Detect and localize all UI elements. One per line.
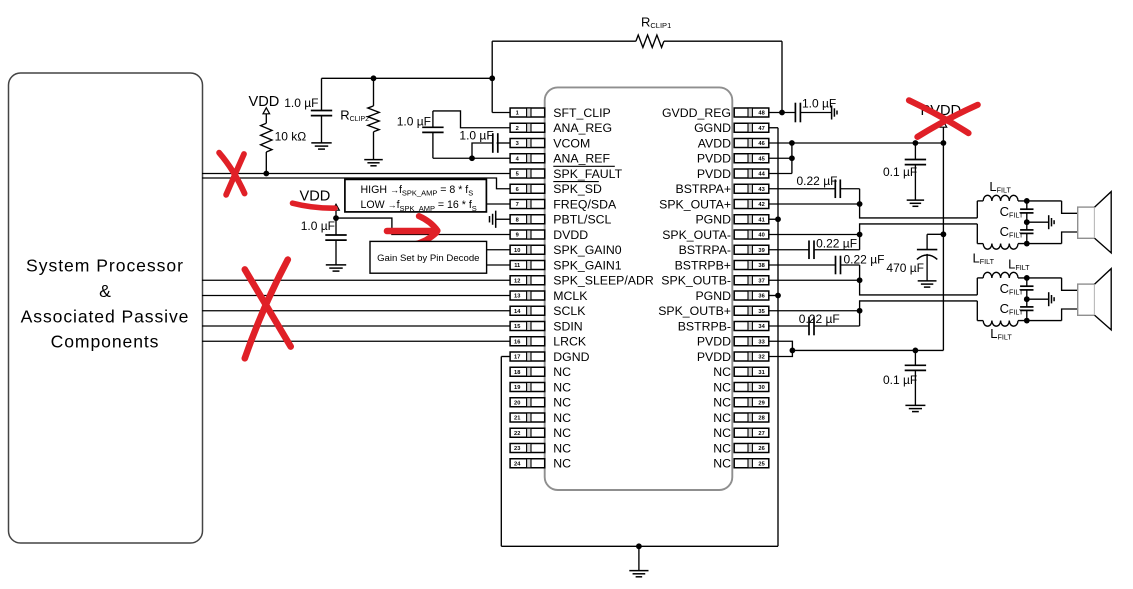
- pin 42 label SPK_OUTA+: [659, 197, 731, 211]
- red underline VDD: [293, 203, 336, 208]
- capacitor 470uF value label: [886, 261, 924, 275]
- pin 20 box: [510, 398, 545, 407]
- svg-text:RCLIP2: RCLIP2: [340, 108, 369, 124]
- svg-text:33: 33: [758, 339, 764, 345]
- capacitor 0.22uF BSTRPA+: [835, 179, 859, 204]
- capacitor 1.0uF at SFT_CLIP: [311, 78, 332, 143]
- pin 24 label NC: [553, 457, 571, 471]
- pin 39 label BSTRPA-: [679, 243, 731, 257]
- pin 3 label VCOM: [553, 136, 590, 150]
- capacitor 0.1uF bottom value label: [883, 373, 917, 387]
- svg-text:43: 43: [758, 187, 764, 193]
- wire DGND to bottom rail: [501, 357, 510, 547]
- pin 26 label NC: [713, 441, 731, 455]
- svg-text:PVDD: PVDD: [697, 167, 731, 181]
- pin 12 label SPK_SLEEP/ADR: [553, 274, 654, 288]
- capacitor 1.0uF ANA_REG value label: [397, 115, 431, 129]
- svg-text:Gain Set by Pin Decode: Gain Set by Pin Decode: [377, 253, 479, 264]
- svg-text:0.22 µF: 0.22 µF: [844, 253, 885, 267]
- node PGND pin36 junction: [775, 293, 781, 299]
- pin 10 box: [510, 245, 545, 254]
- pin 4 box: [510, 154, 545, 163]
- svg-text:LFILT: LFILT: [1008, 256, 1030, 272]
- pin 15 box: [510, 322, 545, 331]
- svg-text:ANA_REF: ANA_REF: [553, 152, 610, 166]
- svg-text:LFILT: LFILT: [989, 179, 1011, 195]
- resistor RCLIP2: [368, 78, 379, 159]
- svg-text:10 kΩ: 10 kΩ: [275, 130, 307, 144]
- pin 38 box: [734, 261, 769, 270]
- pin 4 label ANA_REF: [553, 152, 610, 166]
- pin 11 box: [510, 261, 545, 270]
- svg-text:0.22 µF: 0.22 µF: [816, 237, 857, 251]
- svg-text:NC: NC: [713, 380, 731, 394]
- pin 20 label NC: [553, 396, 571, 410]
- pin 24 box: [510, 459, 545, 468]
- inductor LFILT bottom (channel B): [977, 321, 1061, 327]
- node PVDD bottom junction: [790, 348, 919, 354]
- svg-text:1.0 µF: 1.0 µF: [397, 115, 431, 129]
- svg-text:19: 19: [514, 385, 520, 391]
- wire LRCK line: [202, 340, 510, 342]
- svg-text:MCLK: MCLK: [553, 289, 588, 303]
- pin 22 box: [510, 428, 545, 437]
- pin 44 label PVDD: [697, 167, 731, 181]
- svg-text:0.1 µF: 0.1 µF: [883, 373, 917, 387]
- svg-text:VDD: VDD: [249, 94, 280, 110]
- capacitor CFILT lower label (channel A): [1000, 224, 1024, 240]
- svg-text:0.22 µF: 0.22 µF: [799, 312, 840, 326]
- pin 38 label BSTRPB+: [675, 258, 731, 272]
- svg-text:NC: NC: [713, 365, 731, 379]
- svg-text:9: 9: [516, 233, 519, 239]
- pin 13 box: [510, 291, 545, 300]
- pin 10 label SPK_GAIN0: [553, 243, 622, 257]
- svg-text:LRCK: LRCK: [553, 335, 587, 349]
- pin 13 label MCLK: [553, 289, 588, 303]
- capacitor 1.0uF at VCOM: [472, 133, 510, 158]
- svg-text:PGND: PGND: [695, 289, 731, 303]
- capacitor 1.0uF VCOM value label: [459, 129, 493, 143]
- pin 39 box: [734, 245, 769, 254]
- svg-text:36: 36: [758, 294, 764, 300]
- red X over PVDD: [909, 100, 978, 137]
- svg-text:34: 34: [758, 324, 765, 330]
- svg-text:37: 37: [758, 278, 764, 284]
- svg-text:5: 5: [516, 172, 519, 178]
- svg-text:7: 7: [516, 202, 519, 208]
- svg-text:25: 25: [758, 461, 764, 467]
- capacitor CFILT upper (channel B): [1020, 278, 1033, 299]
- svg-text:SFT_CLIP: SFT_CLIP: [553, 106, 610, 120]
- wire SPK_GAIN0: [487, 249, 511, 251]
- svg-text:BSTRPB-: BSTRPB-: [678, 319, 731, 333]
- capacitor 1.0uF GVDD value label: [802, 97, 836, 111]
- capacitor CFILT upper (channel A): [1020, 201, 1033, 222]
- speaker (channel B): [1078, 269, 1112, 330]
- svg-text:46: 46: [758, 141, 764, 147]
- pin 6 label SPK_SD: [553, 182, 602, 197]
- svg-text:NC: NC: [553, 411, 571, 425]
- capacitor CFILT lower (channel A): [1020, 222, 1033, 243]
- svg-text:NC: NC: [713, 457, 731, 471]
- svg-text:42: 42: [758, 202, 764, 208]
- pin 12 box: [510, 276, 545, 285]
- pin 28 box: [734, 413, 769, 422]
- svg-text:47: 47: [758, 126, 764, 132]
- pin 14 label SCLK: [553, 304, 586, 318]
- pin 48 label GVDD_REG: [662, 106, 731, 120]
- pin 32 label PVDD: [697, 350, 731, 364]
- pin 21 box: [510, 413, 545, 422]
- pin 32 box: [734, 352, 769, 361]
- wire VDD to DVDD node: [335, 210, 337, 218]
- system processor block label: [21, 256, 190, 352]
- node SPK_OUTA- junction: [857, 232, 863, 238]
- svg-text:0.1 µF: 0.1 µF: [883, 165, 917, 179]
- svg-text:LFILT: LFILT: [990, 326, 1012, 342]
- wire MCLK line: [202, 295, 510, 297]
- svg-text:2: 2: [516, 126, 519, 132]
- resistor RCLIP1 label: [641, 15, 671, 31]
- svg-text:20: 20: [514, 400, 520, 406]
- capacitor 0.1uF at AVDD: [905, 143, 926, 200]
- svg-text:40: 40: [758, 233, 764, 239]
- svg-text:11: 11: [514, 263, 520, 269]
- pin 33 label PVDD: [697, 335, 731, 349]
- capacitor CFILT upper label (channel B): [1000, 281, 1024, 297]
- pin 8 label PBTL/SCL: [553, 213, 611, 227]
- capacitor 0.22uF BSTRPA-: [809, 235, 860, 260]
- pin 17 box: [510, 352, 545, 361]
- pin 7 label FREQ/SDA: [553, 197, 617, 211]
- ground bottom center: [629, 546, 648, 577]
- pin 27 box: [734, 428, 769, 437]
- wire SPK_OUTB- to filter: [769, 280, 977, 295]
- inductor LFILT bottom (channel A): [977, 244, 1061, 250]
- pin 46 label AVDD: [698, 136, 731, 150]
- capacitor 0.1uF at PVDD bottom: [905, 350, 926, 405]
- pin 9 label DVDD: [553, 228, 588, 242]
- wire filter input verticals (channel B): [976, 278, 978, 321]
- svg-text:48: 48: [758, 111, 764, 117]
- svg-text:CFILT: CFILT: [1000, 281, 1024, 297]
- svg-text:DGND: DGND: [553, 350, 589, 364]
- capacitor 470uF bulk: [917, 234, 944, 281]
- ground under SFT_CLIP cap: [311, 143, 331, 149]
- wire BSTRPB- stub: [769, 325, 809, 327]
- wire filter to speaker (channel B): [1062, 278, 1078, 321]
- node filter mid junction (channel A): [1024, 219, 1030, 225]
- pin 36 label PGND: [695, 289, 731, 303]
- svg-text:23: 23: [514, 446, 520, 452]
- PVDD symbol: [921, 103, 962, 127]
- inductor LFILT top (channel B): [977, 272, 1061, 278]
- wire SPK_OUTB+ to filter: [769, 301, 977, 311]
- svg-text:VCOM: VCOM: [553, 136, 590, 150]
- svg-text:28: 28: [758, 416, 764, 422]
- inductor LFILT top (channel A): [977, 195, 1061, 201]
- pin 31 label NC: [713, 365, 731, 379]
- svg-text:NC: NC: [713, 411, 731, 425]
- node PVDD pin45 junction: [789, 155, 795, 161]
- wire filter input verticals (channel A): [976, 201, 978, 244]
- svg-text:16: 16: [514, 339, 520, 345]
- pin 1 box: [510, 108, 545, 117]
- pin 16 box: [510, 337, 545, 346]
- pin 40 label SPK_OUTA-: [662, 228, 731, 242]
- system processor block: [9, 73, 203, 543]
- pin 27 label NC: [713, 426, 731, 440]
- pin 47 label GGND: [694, 121, 731, 135]
- note box freq select: [345, 179, 487, 212]
- svg-text:6: 6: [516, 187, 519, 193]
- node bottom ground junction: [636, 543, 642, 549]
- node filter top junction (channel B): [1024, 275, 1030, 281]
- capacitor 1.0uF DVDD value label: [301, 219, 335, 233]
- svg-text:GGND: GGND: [694, 121, 731, 135]
- capacitor 0.1uF AVDD value label: [883, 165, 917, 179]
- svg-text:PBTL/SCL: PBTL/SCL: [553, 213, 611, 227]
- pin 2 box: [510, 123, 545, 132]
- note box freq select text: [361, 184, 477, 213]
- svg-text:SPK_SD: SPK_SD: [553, 182, 602, 196]
- svg-text:PVDD: PVDD: [697, 152, 731, 166]
- pin 42 box: [734, 200, 769, 209]
- pin 19 box: [510, 383, 545, 392]
- pin 43 box: [734, 184, 769, 193]
- pin 44 box: [734, 169, 769, 178]
- wire BSTRPA+ stub: [769, 188, 835, 190]
- wire PVDD pins 45/44 join: [769, 143, 792, 174]
- ground under AVDD cap: [907, 200, 924, 206]
- wire AVDD rail: [769, 142, 944, 144]
- svg-text:8: 8: [516, 217, 519, 223]
- node SPK_OUTB- junction: [857, 277, 863, 283]
- pin 15 label SDIN: [553, 319, 582, 333]
- svg-text:SPK_GAIN1: SPK_GAIN1: [553, 258, 622, 272]
- pin 23 box: [510, 444, 545, 453]
- pin 35 label SPK_OUTB+: [658, 304, 731, 318]
- wire SPK_FAULT line: [202, 173, 510, 175]
- node AVDD junctions: [789, 140, 946, 146]
- svg-text:VDD: VDD: [300, 189, 331, 205]
- node rail-SFT_CLIP junction: [489, 75, 495, 81]
- svg-text:32: 32: [758, 355, 764, 361]
- node GVDD_REG junction: [779, 110, 785, 116]
- svg-text:21: 21: [514, 416, 520, 422]
- svg-text:SPK_SLEEP/ADR: SPK_SLEEP/ADR: [553, 274, 654, 288]
- pin 37 label SPK_OUTB-: [661, 274, 731, 288]
- svg-text:BSTRPA-: BSTRPA-: [679, 243, 731, 257]
- svg-text:31: 31: [758, 370, 764, 376]
- svg-text:0.22 µF: 0.22 µF: [797, 174, 838, 188]
- node rail-RCLIP2 junction: [371, 75, 377, 81]
- pin 19 label NC: [553, 380, 571, 394]
- wire SPK_OUTA- to filter: [769, 224, 977, 235]
- resistor RCLIP1: [492, 35, 782, 47]
- wire PVDD vertical rail: [942, 127, 944, 350]
- svg-text:38: 38: [758, 263, 764, 269]
- pin 34 label BSTRPB-: [678, 319, 731, 333]
- svg-text:44: 44: [758, 172, 765, 178]
- pin 29 label NC: [713, 396, 731, 410]
- svg-text:Associated Passive: Associated Passive: [21, 306, 190, 326]
- pin 48 box: [734, 108, 769, 117]
- svg-text:12: 12: [514, 278, 520, 284]
- node filter bottom junction (channel A): [1024, 241, 1030, 247]
- ground at PBTL/SCL: [490, 211, 511, 228]
- svg-text:CFILT: CFILT: [1000, 301, 1024, 317]
- ground at filter midpoint (channel B): [1027, 292, 1054, 306]
- wire PGND pin36 stub: [769, 295, 778, 297]
- pin 43 label BSTRPA+: [676, 182, 731, 196]
- pin 25 label NC: [713, 457, 731, 471]
- pin 18 label NC: [553, 365, 571, 379]
- node SPK_FAULT pull-up junction: [263, 171, 269, 177]
- wire PVDD pins 33/32 join: [769, 341, 944, 356]
- node DVDD junction: [333, 215, 339, 221]
- svg-text:10: 10: [514, 248, 520, 254]
- capacitor 1.0uF at GVDD_REG: [795, 103, 831, 123]
- pin 5 label SPK_FAULT: [553, 166, 622, 181]
- pin 5 box: [510, 169, 545, 178]
- pin 6 box: [510, 184, 545, 193]
- pin 45 label PVDD: [697, 152, 731, 166]
- inductor LFILT bottom label (channel A): [973, 250, 995, 266]
- svg-text:SPK_OUTA+: SPK_OUTA+: [659, 197, 731, 211]
- pin 29 box: [734, 398, 769, 407]
- pin 26 box: [734, 444, 769, 453]
- svg-text:470 µF: 470 µF: [886, 261, 924, 275]
- pin 22 label NC: [553, 426, 571, 440]
- svg-text:29: 29: [758, 400, 764, 406]
- red X over fault/sd lines: [219, 153, 245, 195]
- svg-text:1: 1: [516, 111, 519, 117]
- speaker (channel A): [1078, 192, 1112, 253]
- pin 16 label LRCK: [553, 335, 587, 349]
- svg-text:DVDD: DVDD: [553, 228, 588, 242]
- ground under bottom 0.1uF cap: [905, 405, 925, 411]
- node filter top junction (channel A): [1024, 198, 1030, 204]
- svg-text:LFILT: LFILT: [973, 250, 995, 266]
- node PVDD 470uF junction: [941, 231, 947, 237]
- svg-text:1.0 µF: 1.0 µF: [284, 96, 318, 110]
- pin 34 box: [734, 322, 769, 331]
- node ANA_REF junction: [469, 155, 475, 161]
- svg-text:45: 45: [758, 156, 764, 162]
- pin 40 box: [734, 230, 769, 239]
- wire SPK_SLEEP/ADR line: [202, 279, 510, 281]
- pin 37 box: [734, 276, 769, 285]
- wire SPK_SD line: [202, 178, 510, 189]
- pin 28 label NC: [713, 411, 731, 425]
- pin 21 label NC: [553, 411, 571, 425]
- svg-text:SCLK: SCLK: [553, 304, 586, 318]
- svg-text:NC: NC: [553, 396, 571, 410]
- wire bottom ground rail: [501, 545, 778, 547]
- capacitor 0.22uF BSTRPB-: [809, 311, 860, 336]
- ground right of GVDD cap: [832, 106, 837, 120]
- wire BSTRPA- stub: [769, 249, 809, 251]
- node filter mid junction (channel B): [1024, 296, 1030, 302]
- IC U1 TAS5760 body: [545, 87, 733, 490]
- pin 31 box: [734, 367, 769, 376]
- svg-text:Components: Components: [51, 332, 160, 352]
- pin 2 label ANA_REG: [553, 121, 612, 135]
- pin 1 label SFT_CLIP: [553, 106, 610, 120]
- svg-text:18: 18: [514, 370, 520, 376]
- red X over data lines: [245, 260, 291, 359]
- svg-text:NC: NC: [553, 365, 571, 379]
- wire GVDD_REG stub: [769, 112, 796, 114]
- pin 7 box: [510, 200, 545, 209]
- svg-text:CFILT: CFILT: [1000, 224, 1024, 240]
- ground at filter midpoint (channel A): [1027, 215, 1054, 229]
- pin 45 box: [734, 154, 769, 163]
- capacitor 0.22uF BSTRPB- value label: [799, 312, 840, 326]
- pin 47 box: [734, 123, 769, 132]
- svg-text:SPK_GAIN0: SPK_GAIN0: [553, 243, 622, 257]
- pin 41 label PGND: [695, 213, 731, 227]
- VDD symbol at pull-up: [249, 94, 280, 114]
- pin 3 box: [510, 139, 545, 148]
- svg-text:ANA_REG: ANA_REG: [553, 121, 612, 135]
- svg-text:35: 35: [758, 309, 764, 315]
- red arrow to DVDD wire: [387, 216, 438, 245]
- pin 46 box: [734, 139, 769, 148]
- svg-text:SDIN: SDIN: [553, 319, 582, 333]
- svg-text:NC: NC: [553, 457, 571, 471]
- wire rail down to pin 1: [492, 78, 510, 112]
- svg-text:BSTRPA+: BSTRPA+: [676, 182, 731, 196]
- pin 30 label NC: [713, 380, 731, 394]
- svg-text:22: 22: [514, 431, 520, 437]
- wire FREQ/SDA: [486, 203, 510, 205]
- svg-text:27: 27: [758, 431, 764, 437]
- node filter bottom junction (channel B): [1024, 318, 1030, 324]
- pin 17 label DGND: [553, 350, 589, 364]
- pin 41 box: [734, 215, 769, 224]
- svg-text:14: 14: [514, 309, 521, 315]
- svg-text:NC: NC: [553, 426, 571, 440]
- svg-text:NC: NC: [553, 441, 571, 455]
- svg-text:SPK_FAULT: SPK_FAULT: [553, 167, 622, 181]
- pin 23 label NC: [553, 441, 571, 455]
- svg-text:39: 39: [758, 248, 764, 254]
- ground under RCLIP2: [364, 160, 383, 166]
- wire BSTRPB+ stub: [769, 264, 836, 266]
- svg-text:15: 15: [514, 324, 520, 330]
- inductor LFILT top label (channel A): [989, 179, 1011, 195]
- svg-text:AVDD: AVDD: [698, 136, 731, 150]
- inductor LFILT top label (channel B): [1008, 256, 1030, 272]
- wire SPK_OUTA+ to filter: [769, 204, 977, 218]
- svg-text:RCLIP1: RCLIP1: [641, 15, 671, 31]
- ground under DVDD cap: [326, 265, 346, 271]
- capacitor 0.22uF BSTRPB+: [836, 256, 860, 281]
- capacitor 1.0uF SFT_CLIP value label: [284, 96, 318, 110]
- wire SFT_CLIP top rail: [322, 77, 493, 79]
- svg-text:3: 3: [516, 141, 519, 147]
- pin 18 box: [510, 367, 545, 376]
- svg-text:17: 17: [514, 355, 520, 361]
- ground under 470uF cap: [918, 281, 937, 287]
- svg-text:PVDD: PVDD: [697, 335, 731, 349]
- svg-text:&: &: [99, 281, 111, 301]
- svg-text:41: 41: [758, 217, 764, 223]
- wire RCLIP1 left vertical: [491, 41, 493, 78]
